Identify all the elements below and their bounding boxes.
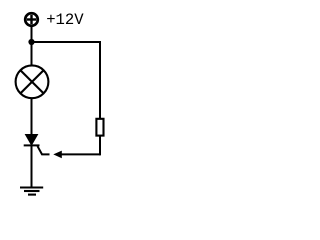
resistor R1: [96, 119, 103, 136]
ground: [20, 188, 43, 195]
SCR cathode bar: [24, 144, 40, 146]
svg-text:+12V: +12V: [46, 11, 84, 29]
node junction: [28, 39, 34, 45]
lamp L1: [16, 65, 49, 98]
gate trigger arrowhead: [53, 151, 62, 159]
wire resistor bottom to arrow: [99, 136, 101, 155]
wire junction to right: [32, 41, 101, 43]
arrow wire from resistor: [61, 153, 100, 155]
wire right side down to resistor: [99, 41, 101, 118]
wire SCR to ground: [31, 146, 33, 188]
wire terminal to lamp: [31, 26, 33, 66]
power terminal +12V: [25, 13, 38, 26]
SCR gate lead: [38, 146, 50, 154]
SCR anode triangle: [25, 134, 37, 145]
wire lamp to SCR: [31, 98, 33, 135]
